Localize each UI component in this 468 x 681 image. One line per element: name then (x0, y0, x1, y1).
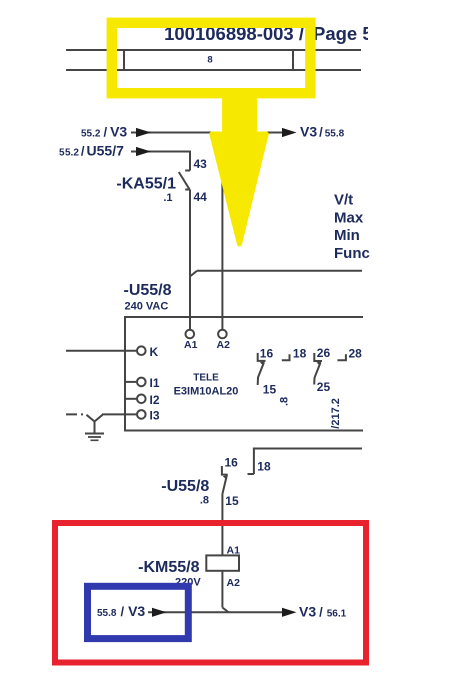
header rule bottom (66, 69, 361, 71)
blue highlight rectangle (88, 586, 189, 638)
contact 16 bracket (U55/8 output) (222, 466, 228, 475)
terminal circle A1 (186, 330, 195, 339)
wire V3 horizontal (55.2/V3 to V3/55.8) (131, 132, 283, 134)
header cell left divider (123, 50, 125, 70)
junction diagonal (222, 608, 228, 613)
contact blade 26-25 (314, 363, 320, 385)
terminal circle I1 (137, 378, 146, 387)
blade arrowhead (U55/8 output) (223, 475, 228, 480)
contact 16 bracket (258, 353, 266, 361)
stub wire I1 (125, 381, 136, 383)
svg-text:.8: .8 (279, 397, 291, 406)
svg-text:16: 16 (225, 456, 239, 470)
svg-text:28: 28 (349, 347, 363, 361)
ground symbol (85, 434, 104, 441)
svg-text:15: 15 (225, 494, 239, 508)
svg-text:15: 15 (263, 383, 277, 397)
yellow highlight rectangle (112, 23, 311, 93)
svg-text:I3: I3 (150, 409, 160, 423)
svg-text:E3IM10AL20: E3IM10AL20 (174, 386, 239, 398)
header rule top (66, 49, 361, 51)
svg-text:-U55/8: -U55/8 (161, 478, 209, 495)
arrow into wire from 55.2/V3 (136, 128, 151, 137)
ground stem (94, 422, 96, 434)
svg-text:Min: Min (334, 227, 360, 244)
wire from coil A2 down (221, 571, 223, 608)
terminal circle K (137, 346, 146, 355)
svg-text:A2: A2 (227, 577, 241, 589)
svg-text:240 VAC: 240 VAC (125, 301, 169, 313)
svg-text:A1: A1 (184, 339, 198, 351)
svg-text:55.2/V3: 55.2/V3 (81, 124, 127, 140)
wire from contact 44 down to A1 (189, 190, 191, 330)
svg-text:16: 16 (260, 347, 274, 361)
arrow into bottom wire from 55.8/V3 (152, 608, 167, 617)
red highlight rectangle (55, 523, 366, 663)
relay U55/8 box (open right) (125, 317, 363, 431)
terminal circle I2 (137, 395, 146, 404)
wire from V3 net down to A2 (221, 133, 223, 330)
svg-text:43: 43 (194, 157, 208, 171)
svg-text:-U55/8: -U55/8 (124, 282, 172, 299)
bottom wire V3 (148, 611, 283, 613)
contact blade 16-15 (258, 363, 264, 385)
blade arrowhead 16 (260, 361, 265, 366)
terminal circle I3 (137, 410, 146, 419)
svg-text:18: 18 (293, 347, 307, 361)
svg-text:V3/55.8: V3/55.8 (300, 124, 345, 140)
contact 18 bracket (282, 354, 290, 360)
terminal tick 44 (185, 189, 190, 191)
branch wire to the right (197, 270, 362, 272)
coil KM55/8 (206, 555, 239, 570)
arrow into wire from 55.2/U55/7 (136, 147, 151, 156)
shield tap diagonal left (87, 415, 95, 422)
svg-text:-KM55/8: -KM55/8 (138, 559, 199, 576)
svg-text:I1: I1 (150, 376, 160, 390)
svg-text:K: K (150, 345, 159, 359)
wire into K (66, 350, 136, 352)
svg-text:V3/56.1: V3/56.1 (299, 604, 347, 620)
shield wire dash-dot into I3 (66, 413, 87, 415)
svg-text:18: 18 (257, 460, 271, 474)
header cell right divider (292, 50, 294, 70)
svg-text:25: 25 (317, 380, 331, 394)
terminal tick 43 (185, 170, 190, 172)
svg-text:8: 8 (207, 55, 212, 66)
header title text (164, 23, 383, 44)
contact KA55/1 blade (179, 172, 190, 190)
svg-text:Func: Func (334, 245, 370, 262)
svg-text:44: 44 (194, 190, 208, 204)
svg-text:5.2/U55/7: 5.2/U55/7 (65, 143, 124, 159)
wire from 15 down to coil A1 (221, 494, 223, 555)
shield tap diagonal right (95, 415, 103, 422)
bracket wire from 18 row below relay (254, 449, 362, 475)
terminal foot 18 (248, 473, 254, 475)
wire corner down to contact KA55/1 (189, 151, 191, 171)
svg-text:A2: A2 (217, 339, 231, 351)
arrow out to V3/56.1 (282, 608, 297, 617)
blade arrowhead 26 (316, 361, 321, 366)
svg-text:.1: .1 (163, 192, 172, 204)
yellow highlight arrow (212, 91, 266, 244)
svg-text:/217.2: /217.2 (330, 398, 342, 429)
svg-text:Page 56: Page 56 (313, 23, 383, 44)
contact blade 16-15 (U55/8 output) (222, 476, 226, 494)
wire U55/7 horizontal (131, 151, 190, 153)
stub wire I2 (125, 398, 136, 400)
branch jog diagonal (190, 271, 197, 277)
svg-text:Max: Max (334, 209, 364, 226)
wire to I3 (102, 413, 136, 415)
contact 28 bracket (337, 354, 346, 360)
svg-text:I2: I2 (150, 393, 160, 407)
arrow out to V3/55.8 (282, 128, 297, 137)
svg-text:.8: .8 (200, 495, 209, 507)
contact 26 bracket (314, 353, 322, 361)
svg-text:26: 26 (317, 346, 331, 360)
svg-text:-KA55/1: -KA55/1 (116, 176, 176, 193)
svg-text:V/t: V/t (334, 192, 353, 209)
svg-text:TELE: TELE (193, 373, 219, 384)
terminal circle A2 (218, 330, 227, 339)
svg-text:55.8/V3: 55.8/V3 (97, 603, 145, 619)
